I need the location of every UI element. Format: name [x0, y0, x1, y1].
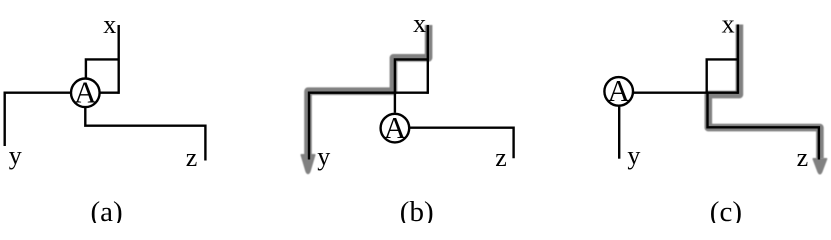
- svg-text:x: x: [722, 10, 735, 39]
- svg-text:x: x: [103, 10, 116, 39]
- gray arrowhead at z (c): [813, 159, 826, 174]
- svg-text:(a): (a): [91, 196, 123, 223]
- ammeter circle A (a): [71, 79, 100, 108]
- wire x input vertical (c): [737, 25, 739, 94]
- svg-text:A: A: [384, 110, 407, 145]
- svg-text:(c): (c): [710, 196, 742, 223]
- svg-text:(b): (b): [400, 196, 434, 223]
- ammeter circle A (b): [381, 114, 410, 143]
- wire ammeter bottom y stub (c): [618, 106, 620, 159]
- wire x input vertical (b): [427, 25, 429, 94]
- svg-text:x: x: [413, 9, 426, 38]
- wire long horizontal from ammeter right (c): [633, 91, 738, 93]
- gray current path x to y (b): [308, 25, 429, 156]
- ammeter circle A (c): [604, 77, 633, 106]
- wire junction down and right to z (c): [708, 93, 819, 160]
- svg-text:y: y: [317, 142, 330, 171]
- svg-text:A: A: [608, 73, 631, 108]
- gray arrowhead at y (b): [301, 155, 315, 174]
- wire loop top jog (a): [86, 59, 119, 77]
- wire ammeter bottom to z (a): [85, 107, 205, 161]
- wire ammeter right to z (b): [410, 128, 514, 159]
- wire loop bottom from ammeter right (a): [100, 91, 119, 93]
- wire long horizontal to y stub (b): [309, 93, 428, 160]
- wire loop jog to ammeter top (b): [395, 59, 428, 112]
- svg-text:z: z: [797, 143, 809, 172]
- svg-text:z: z: [495, 143, 507, 172]
- gray current path x to z (c): [708, 25, 820, 159]
- svg-text:y: y: [627, 141, 640, 170]
- svg-text:A: A: [74, 75, 97, 110]
- wire x input vertical (a): [117, 25, 119, 94]
- svg-text:z: z: [186, 143, 198, 172]
- svg-text:y: y: [9, 141, 22, 170]
- wire loop jog (c): [707, 59, 738, 92]
- wire left horizontal to y corner (a): [5, 93, 71, 146]
